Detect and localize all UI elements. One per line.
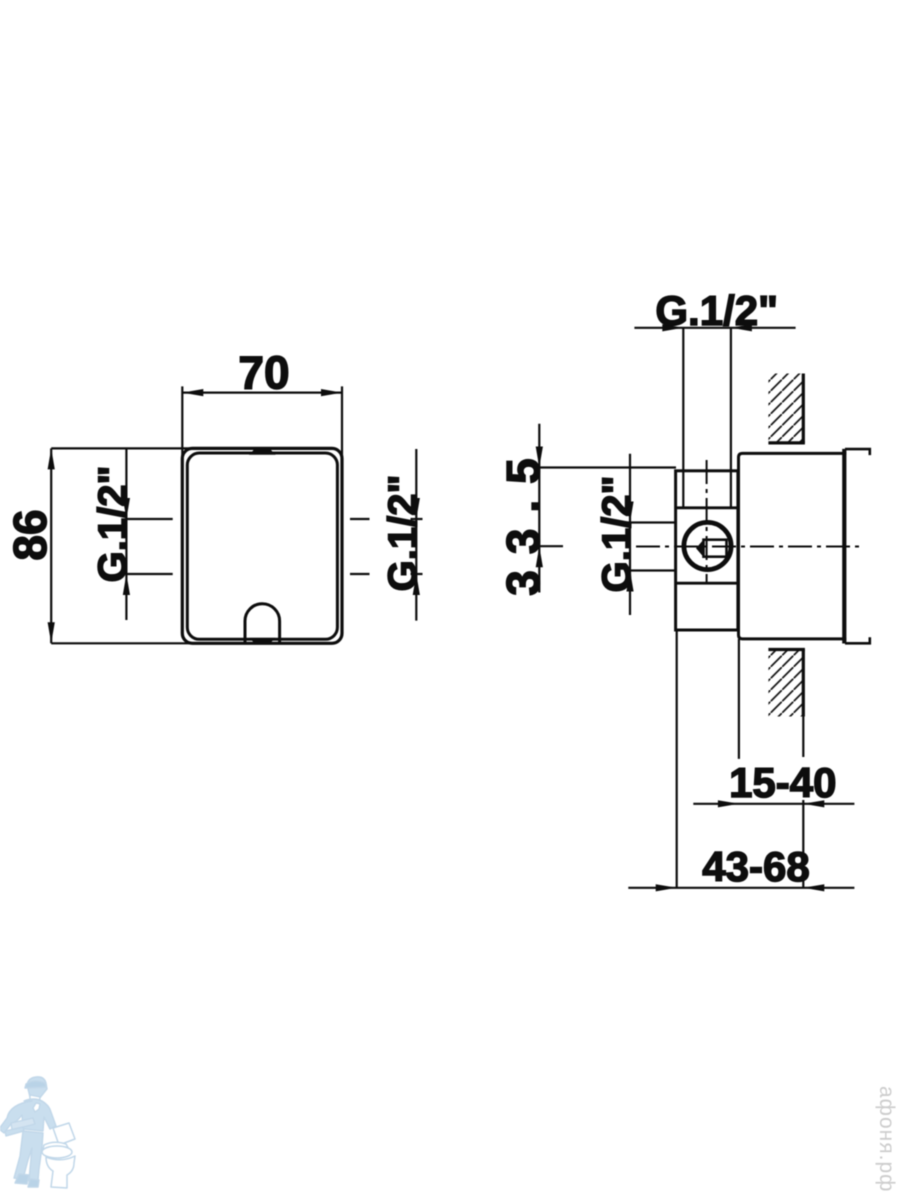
svg-text:G.1/2": G.1/2" <box>595 476 639 593</box>
svg-text:G.1/2": G.1/2" <box>381 475 425 592</box>
svg-text:86: 86 <box>4 509 56 560</box>
svg-text:G.1/2": G.1/2" <box>655 287 778 334</box>
svg-text:43-68: 43-68 <box>702 843 809 890</box>
svg-text:70: 70 <box>238 347 289 399</box>
svg-text:15-40: 15-40 <box>729 759 836 806</box>
svg-text:G.1/2": G.1/2" <box>91 466 135 583</box>
svg-text:33.5: 33.5 <box>497 442 549 596</box>
svg-text:афоня.рф: афоня.рф <box>875 1086 898 1192</box>
